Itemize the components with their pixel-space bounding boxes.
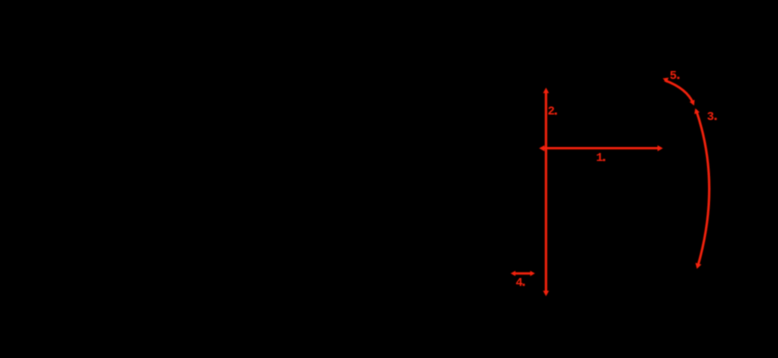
wire vertical measure line 2 bbox=[545, 91, 547, 293]
node arrowhead 1 right bbox=[658, 145, 664, 151]
node arrowhead 1 left bbox=[539, 145, 545, 151]
node arrowhead arc3 bottom bbox=[695, 263, 701, 269]
node arrowhead 2 bottom bbox=[543, 291, 549, 297]
wire horizontal measure line 1 bbox=[542, 147, 660, 149]
svg-text:1: 1 bbox=[596, 151, 603, 165]
wire arc 3 bbox=[696, 110, 709, 266]
wire small horizontal measure line 4 bbox=[514, 272, 533, 274]
node arrowhead 4 left bbox=[511, 271, 516, 276]
svg-text:3: 3 bbox=[707, 110, 714, 124]
node arrowhead 4 right bbox=[530, 271, 535, 276]
svg-text:5: 5 bbox=[670, 69, 677, 83]
node arrowhead arc3 top bbox=[694, 108, 699, 114]
node arrowhead 2 top bbox=[543, 88, 549, 94]
node arrowhead arc5 start bbox=[663, 78, 669, 83]
wire arc 5 bbox=[665, 80, 694, 103]
node arrowhead arc5 end bbox=[690, 100, 695, 106]
svg-text:2: 2 bbox=[548, 105, 555, 119]
svg-text:4: 4 bbox=[516, 276, 523, 290]
